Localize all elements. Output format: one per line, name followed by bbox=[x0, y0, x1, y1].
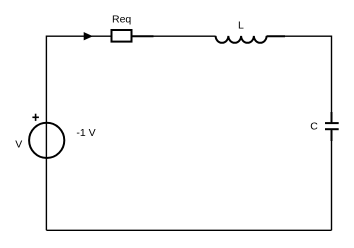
wire right vertical lower bbox=[331, 129, 333, 230]
wire top-left segment bbox=[46, 35, 111, 37]
wire bottom bbox=[46, 229, 331, 231]
svg-text:-1 V: -1 V bbox=[76, 127, 95, 139]
svg-text:Req: Req bbox=[112, 14, 131, 26]
wire left vertical bbox=[45, 36, 47, 231]
wire right vertical upper bbox=[331, 36, 333, 124]
plus sign bbox=[32, 114, 39, 121]
wire top-right segment bbox=[132, 35, 216, 37]
voltage source V bbox=[29, 123, 64, 158]
capacitor C bbox=[325, 112, 339, 141]
current arrow bbox=[84, 33, 92, 40]
svg-text:C: C bbox=[310, 121, 318, 133]
wire top far-right segment bbox=[267, 35, 332, 37]
inductor L bbox=[216, 36, 285, 43]
resistor Req bbox=[112, 30, 154, 42]
svg-text:L: L bbox=[238, 20, 244, 32]
svg-text:V: V bbox=[15, 139, 22, 151]
